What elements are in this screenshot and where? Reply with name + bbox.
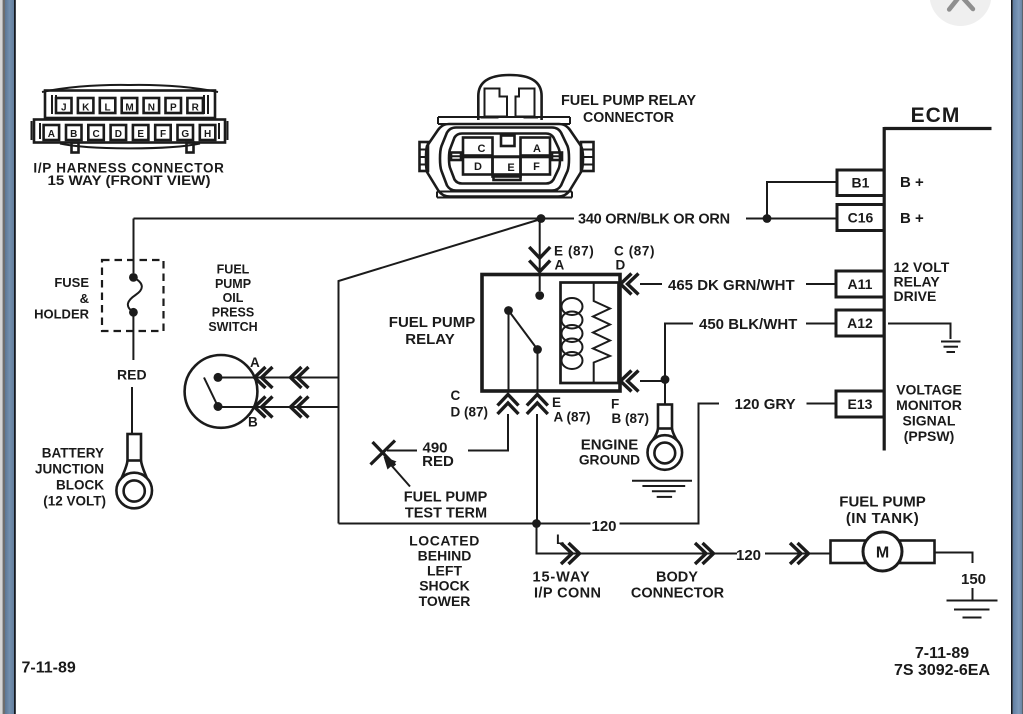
label 12 VOLT RELAY DRIVE [894, 259, 950, 304]
label FUEL PUMP RELAY [389, 314, 475, 348]
pin F [155, 125, 171, 140]
svg-text:C: C [478, 143, 486, 155]
svg-text:FUEL PUMP: FUEL PUMP [404, 490, 488, 506]
pin G [178, 125, 194, 140]
svg-text:PUMP: PUMP [215, 277, 251, 291]
fuse holder dashed box [102, 260, 164, 331]
wire drop to 15-way [537, 524, 738, 554]
relay switch contacts [504, 291, 544, 354]
svg-text:K: K [82, 103, 90, 114]
svg-text:SHOCK: SHOCK [419, 578, 470, 594]
svg-text:A: A [555, 258, 565, 273]
connector body middle outline [440, 128, 569, 191]
svg-text:150: 150 [961, 571, 986, 588]
wire pump to ground [935, 553, 973, 601]
svg-text:TEST TERM: TEST TERM [405, 506, 487, 522]
svg-text:HOLDER: HOLDER [34, 307, 90, 322]
svg-text:C16: C16 [848, 210, 874, 226]
pin J [56, 98, 72, 114]
inline connector chevrons (E/A 87 top) [529, 247, 550, 272]
wires and center components [34, 182, 837, 609]
svg-text:FUEL PUMP: FUEL PUMP [839, 494, 925, 511]
cavity C [463, 138, 493, 156]
svg-text:D: D [115, 129, 122, 140]
ECM block [836, 104, 992, 451]
svg-text:A: A [250, 355, 260, 370]
ground symbol at A12 [941, 342, 961, 353]
pin L [100, 98, 116, 114]
fuel pump relay K1 box [482, 275, 620, 392]
fuel pump relay connector [420, 75, 697, 198]
fuel pump test terminal X [371, 441, 396, 466]
svg-text:A11: A11 [848, 276, 873, 292]
battery ring terminal [116, 434, 152, 508]
relay coil [562, 298, 583, 369]
ECM top line [884, 127, 991, 130]
bottom center key [494, 175, 521, 181]
svg-text:B (87): B (87) [612, 411, 650, 426]
svg-text:D (87): D (87) [451, 405, 489, 420]
chevrons D pin right [621, 274, 639, 295]
pin P [166, 98, 182, 114]
pin R [187, 98, 203, 114]
connector top curve [42, 85, 218, 92]
svg-text:A: A [533, 143, 541, 155]
chevrons pump connector [790, 543, 809, 564]
svg-text:C (87): C (87) [614, 244, 655, 259]
connector chevrons on A wire [255, 367, 309, 388]
caption I/P HARNESS CONNECTOR [33, 161, 224, 189]
pin H [200, 125, 216, 140]
svg-text:ECM: ECM [911, 104, 961, 127]
wire 340 to C16 [746, 218, 837, 220]
relay resistor zigzag [593, 283, 610, 384]
ground symbol 150 [947, 601, 998, 618]
svg-text:H: H [204, 129, 211, 140]
svg-text:J: J [61, 103, 67, 114]
right nub [552, 153, 562, 161]
wire 465 to A11 [640, 283, 836, 285]
svg-text:FUEL PUMP RELAY: FUEL PUMP RELAY [561, 93, 696, 109]
svg-text:7-11-89: 7-11-89 [915, 645, 969, 662]
pin box A12 [836, 310, 884, 336]
label BATTERY JUNCTION BLOCK (12 VOLT) [35, 446, 106, 509]
bottom run and fuel pump [22, 396, 998, 679]
junction node bottom 120 [532, 519, 541, 528]
svg-text:DRIVE: DRIVE [894, 288, 937, 304]
svg-text:E13: E13 [848, 396, 873, 412]
connector chevrons on B wire [255, 397, 309, 418]
pin N [144, 98, 160, 114]
svg-text:C: C [92, 129, 99, 140]
label LOCATED BEHIND LEFT SHOCK TOWER [409, 533, 480, 610]
svg-text:G: G [181, 129, 189, 140]
svg-text:465 DK GRN/WHT: 465 DK GRN/WHT [668, 277, 795, 294]
svg-text:E: E [552, 395, 561, 410]
svg-text:TOWER: TOWER [419, 593, 471, 609]
junction node engine ground [661, 375, 670, 384]
right blue sidebar [1011, 0, 1023, 714]
relay inner box [561, 283, 619, 384]
svg-text:M: M [876, 545, 889, 562]
cavity F [521, 157, 551, 175]
svg-text:OIL: OIL [223, 291, 244, 305]
wire drop to fuse [133, 219, 135, 274]
connector body inner outline [449, 134, 560, 184]
svg-text:E: E [507, 162, 514, 174]
wire switch A to riser [222, 377, 339, 379]
pin box A11 [836, 271, 884, 297]
connector lock tab [478, 75, 541, 120]
svg-text:LEFT: LEFT [427, 563, 462, 579]
svg-text:B: B [70, 129, 77, 140]
wire 450 riser [665, 324, 693, 380]
pin A [44, 125, 60, 140]
date stamp right [894, 645, 991, 679]
top center key [501, 136, 515, 147]
label FUSE & HOLDER [34, 275, 90, 322]
chevrons 15-way conn [561, 543, 580, 564]
wire 120 GRY to E13 [807, 403, 837, 405]
svg-text:LOCATED: LOCATED [409, 533, 480, 549]
close button X [930, 0, 992, 26]
svg-text:VOLTAGE: VOLTAGE [896, 382, 962, 398]
svg-text:450 BLK/WHT: 450 BLK/WHT [699, 316, 797, 333]
engine ground hatch [632, 481, 692, 497]
svg-text:L: L [105, 103, 111, 114]
wire 490 segments [387, 450, 508, 452]
label FUEL PUMP (IN TANK) [839, 494, 925, 528]
label BODY CONNECTOR [631, 570, 725, 602]
left scrollbar strip [0, 0, 5, 714]
wire diagonal from 340 node to riser [339, 219, 542, 524]
svg-text:15-WAY: 15-WAY [533, 570, 591, 586]
svg-text:E: E [137, 129, 144, 140]
svg-text:N: N [148, 103, 155, 114]
pin B [66, 125, 82, 140]
cavity D [463, 157, 493, 175]
cavity E [493, 157, 521, 177]
oil pressure switch S1 [185, 355, 258, 428]
connector top flange [438, 117, 570, 124]
pin box B1 [837, 170, 884, 196]
svg-text:120 GRY: 120 GRY [735, 396, 796, 413]
svg-text:C: C [451, 388, 461, 403]
wire C/D to 490 [468, 414, 508, 451]
label FUEL PUMP TEST TERM [404, 490, 488, 522]
svg-text:A12: A12 [847, 315, 873, 331]
svg-text:I/P CONN: I/P CONN [534, 586, 601, 602]
wire relay contact down [537, 353, 539, 391]
svg-text:FUEL PUMP: FUEL PUMP [389, 314, 475, 331]
svg-text:B +: B + [900, 174, 924, 191]
svg-text:BLOCK: BLOCK [56, 478, 104, 493]
left nub [451, 153, 461, 161]
svg-text:A: A [48, 129, 55, 140]
svg-text:(PPSW): (PPSW) [904, 428, 955, 444]
svg-text:F: F [160, 129, 166, 140]
svg-text:R: R [192, 103, 200, 114]
fuse element [128, 273, 142, 317]
svg-text:F: F [611, 397, 619, 412]
svg-text:B1: B1 [852, 175, 870, 191]
test term arrow [384, 457, 411, 487]
svg-text:B +: B + [900, 210, 924, 227]
right hatched tab [581, 142, 594, 171]
svg-text:340 ORN/BLK OR ORN: 340 ORN/BLK OR ORN [578, 212, 730, 228]
wire 450 to A12 [806, 323, 836, 325]
label VOLTAGE MONITOR SIGNAL (PPSW) [896, 382, 962, 445]
wire F to ground node [640, 380, 665, 382]
svg-text:M: M [125, 103, 133, 114]
junction node at ECM feed [763, 214, 772, 223]
engine ground terminal [648, 405, 683, 470]
ECM bus line [883, 127, 886, 451]
I/P harness connector J1 [32, 85, 228, 188]
svg-text:120: 120 [736, 547, 761, 564]
svg-text:D: D [616, 258, 626, 273]
svg-text:A (87): A (87) [554, 410, 591, 425]
svg-text:CONNECTOR: CONNECTOR [631, 586, 725, 602]
svg-text:F: F [533, 161, 540, 173]
label FUEL PUMP OIL PRESS SWITCH [208, 263, 257, 335]
svg-text:(12 VOLT): (12 VOLT) [43, 494, 106, 509]
svg-text:120: 120 [591, 518, 616, 535]
connector bottom tabs [60, 143, 200, 153]
pin D [111, 125, 127, 140]
A12 ground wire [888, 324, 951, 340]
svg-text:MONITOR: MONITOR [896, 397, 962, 413]
svg-text:D: D [474, 161, 482, 173]
wire ground node to terminal [664, 380, 666, 405]
wire to B1 [767, 182, 837, 219]
wire 120 to E13 riser [620, 404, 720, 524]
caption FUEL PUMP RELAY CONNECTOR [561, 93, 696, 126]
fuel pump motor M [831, 532, 935, 571]
svg-text:(IN TANK): (IN TANK) [846, 510, 919, 527]
svg-text:15 WAY (FRONT VIEW): 15 WAY (FRONT VIEW) [48, 173, 211, 188]
svg-text:7S 3092-6EA: 7S 3092-6EA [894, 662, 991, 679]
chevrons body connector [695, 543, 714, 564]
label ENGINE GROUND [579, 437, 640, 468]
connector row1 shell [45, 91, 215, 119]
pin K [78, 98, 94, 114]
divider line [452, 155, 561, 157]
left blue sidebar [5, 0, 16, 714]
svg-text:B: B [248, 415, 258, 430]
wire 340 main feed [134, 218, 575, 220]
pin C [88, 125, 104, 140]
svg-text:E (87): E (87) [554, 244, 594, 259]
chevrons E/A(87) below relay [527, 395, 548, 415]
pin box E13 [836, 391, 884, 417]
svg-text:&: & [80, 291, 89, 306]
svg-text:GROUND: GROUND [579, 453, 640, 468]
svg-text:BODY: BODY [656, 570, 698, 586]
svg-text:BATTERY: BATTERY [42, 446, 104, 461]
wire to pump [765, 553, 831, 555]
svg-text:SWITCH: SWITCH [208, 320, 257, 334]
cavity A [521, 138, 551, 156]
wire bottom 120 run left [339, 523, 591, 525]
chevrons C/D(87) below relay [498, 395, 519, 415]
svg-text:JUNCTION: JUNCTION [35, 462, 104, 477]
pin box C16 [837, 205, 884, 231]
svg-text:RED: RED [117, 367, 147, 383]
svg-text:7-11-89: 7-11-89 [22, 660, 76, 677]
pin M [122, 98, 138, 114]
wire E/A to bottom node [536, 414, 538, 524]
svg-text:P: P [170, 103, 177, 114]
label 15-WAY I/P CONN [533, 570, 602, 602]
svg-text:PRESS: PRESS [212, 306, 254, 320]
svg-text:RED: RED [422, 453, 454, 470]
wire relay pivot down [508, 313, 510, 391]
connector body outer [426, 124, 583, 197]
wire relay feed drop [539, 219, 541, 292]
pin E [133, 125, 149, 140]
bottom flange [437, 192, 572, 198]
svg-text:FUEL: FUEL [217, 263, 250, 277]
chevrons F pin right [621, 371, 639, 392]
label 490 RED [422, 440, 454, 471]
svg-text:ENGINE: ENGINE [581, 437, 639, 454]
wire switch B to riser [222, 406, 339, 408]
svg-text:CONNECTOR: CONNECTOR [583, 110, 675, 126]
junction node at relay feed [537, 214, 546, 223]
svg-text:RELAY: RELAY [405, 331, 454, 348]
connector row2 shell [32, 120, 228, 143]
wire fuse to battery [132, 312, 133, 434]
svg-text:FUSE: FUSE [54, 275, 89, 290]
svg-text:SIGNAL: SIGNAL [903, 413, 956, 429]
left hatched tab [420, 142, 429, 171]
svg-text:BEHIND: BEHIND [418, 548, 472, 564]
